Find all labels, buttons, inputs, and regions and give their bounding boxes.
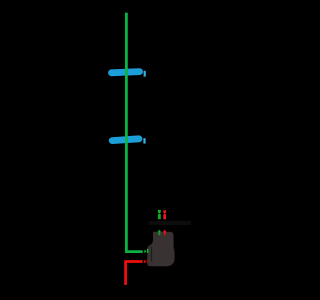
- wire (green, vertical + elbow to U1): [125, 13, 143, 252]
- pin marker P2 (red bar): [163, 210, 166, 219]
- pin arrow A2 (red up-arrow on U1): [163, 230, 167, 236]
- U1 seam line: [151, 247, 152, 262]
- capacitor C2 tab: [143, 138, 145, 143]
- pin marker P1 (green bar): [158, 210, 162, 219]
- U1 shadow band: [149, 221, 191, 226]
- capacitor C1 tab: [144, 71, 146, 77]
- green arrowhead into U1: [144, 249, 149, 253]
- red arrowhead into U1: [144, 259, 148, 263]
- wire (red, elbow down): [126, 260, 143, 285]
- capacitor C2 (lower blue plate): [112, 139, 139, 141]
- component U1 (body): [147, 232, 174, 267]
- capacitor C1 (upper blue plate): [112, 72, 140, 73]
- pin arrow A1 (green up-arrow on U1): [157, 230, 161, 236]
